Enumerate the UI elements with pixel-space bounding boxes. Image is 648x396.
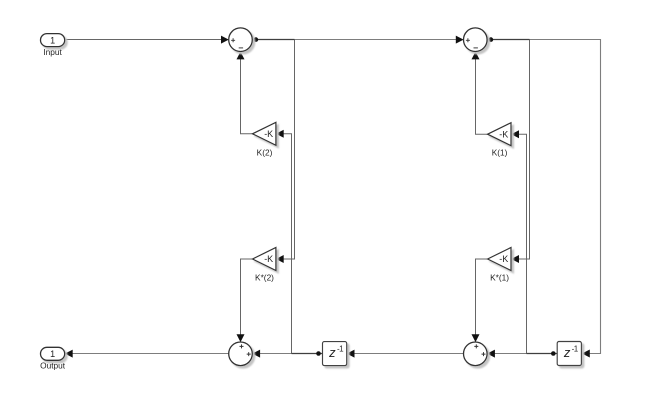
svg-text:z: z [563, 345, 571, 360]
svg-text:Output: Output [40, 361, 66, 371]
svg-text:-K: -K [499, 129, 508, 139]
svg-text:1: 1 [50, 349, 55, 359]
svg-text:K(1): K(1) [492, 148, 508, 158]
svg-text:K*(1): K*(1) [490, 273, 509, 283]
svg-text:K*(2): K*(2) [255, 273, 274, 283]
svg-text:-K: -K [264, 129, 273, 139]
svg-text:-1: -1 [337, 345, 344, 354]
svg-text:-K: -K [264, 254, 273, 264]
svg-text:Input: Input [43, 47, 62, 57]
svg-text:K(2): K(2) [257, 147, 273, 157]
svg-text:z: z [328, 345, 336, 360]
svg-text:1: 1 [50, 35, 55, 45]
svg-text:-1: -1 [572, 345, 579, 354]
svg-text:-K: -K [499, 254, 508, 264]
